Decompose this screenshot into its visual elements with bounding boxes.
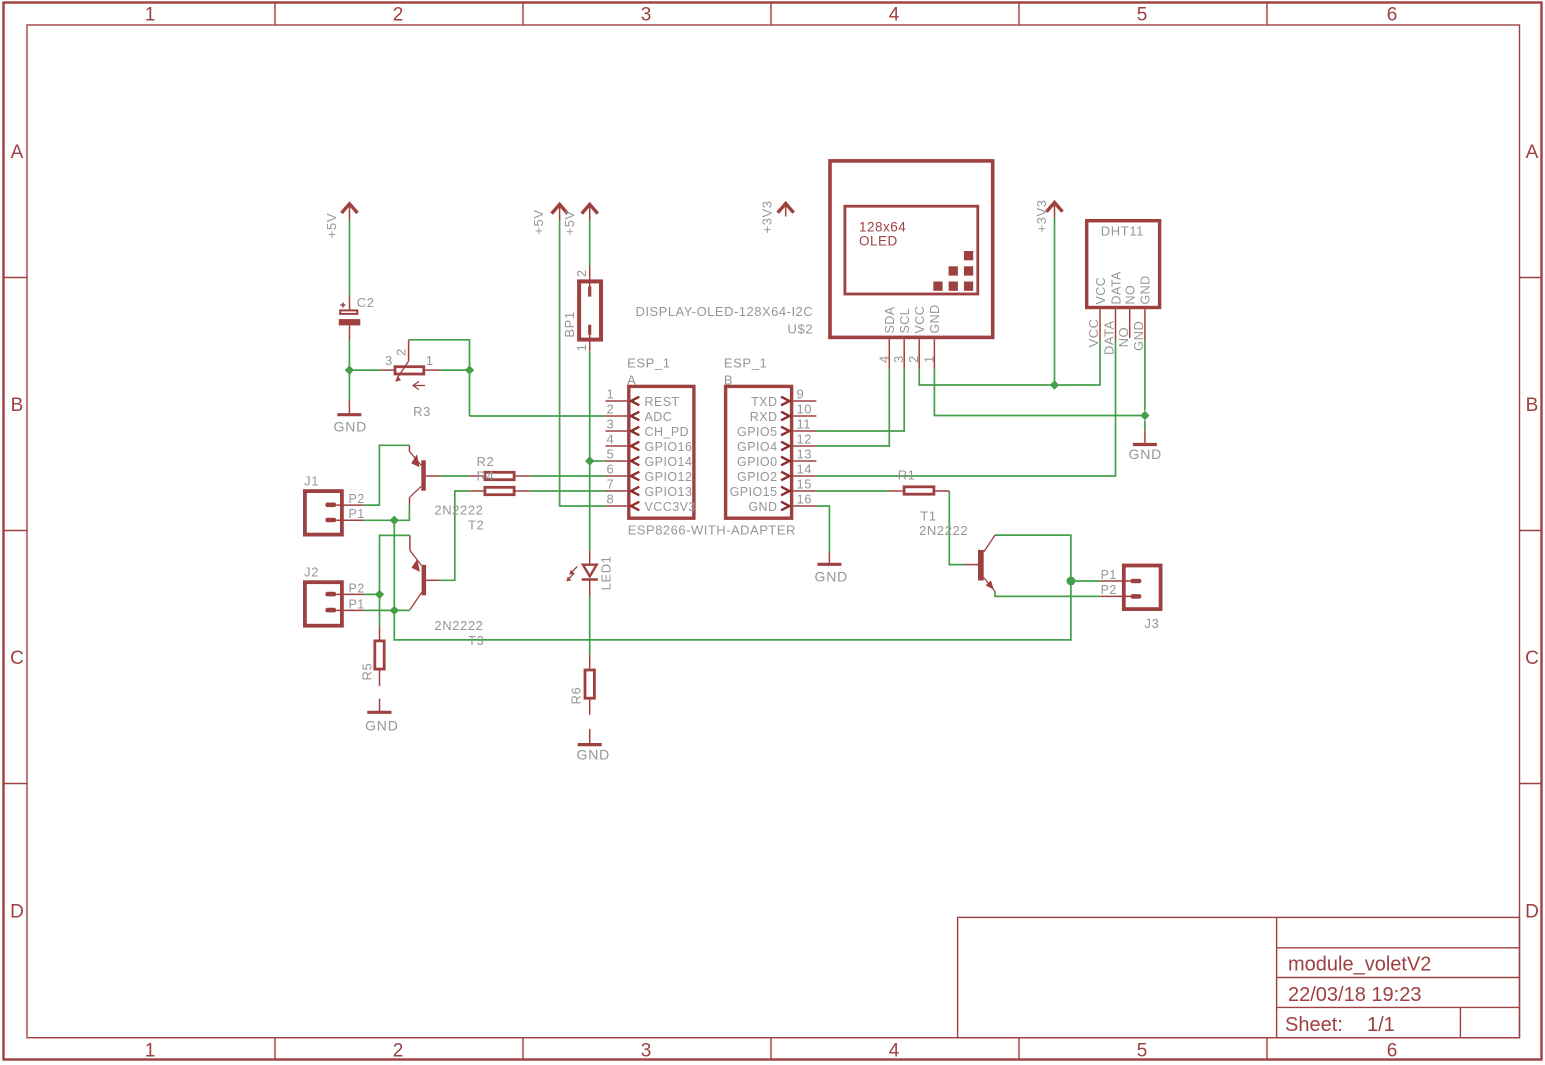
ESP A pin arrows: [631, 397, 639, 511]
svg-text:GPIO0: GPIO0: [737, 455, 777, 469]
ground symbol under R5: [367, 699, 391, 713]
frame column labels top: [145, 5, 1398, 26]
resistor R2: [469, 472, 530, 479]
svg-text:3: 3: [641, 1041, 652, 1062]
svg-text:VCC: VCC: [913, 306, 927, 334]
svg-text:4: 4: [889, 5, 900, 26]
svg-text:GND: GND: [1139, 275, 1153, 304]
svg-text:A: A: [1526, 142, 1539, 163]
svg-text:T1: T1: [920, 508, 936, 523]
svg-text:U$2: U$2: [788, 322, 814, 337]
svg-text:OLED: OLED: [859, 234, 898, 249]
wire C2 to GND node: [348, 340, 350, 400]
svg-text:DHT11: DHT11: [1101, 224, 1144, 239]
capacitor C2: [339, 296, 361, 340]
+5V supply symbol no.0 (above C2): [342, 204, 358, 220]
svg-text:P1: P1: [349, 597, 365, 611]
transistor T2: [409, 445, 439, 505]
wire node to R3 pin3: [349, 369, 380, 371]
svg-text:R5: R5: [360, 663, 375, 681]
potentiometer R3: [380, 340, 440, 390]
svg-text:D: D: [1525, 902, 1539, 923]
svg-text:1: 1: [426, 353, 434, 368]
svg-text:GPIO12: GPIO12: [645, 470, 693, 484]
wire R1 to T1 base: [949, 491, 964, 565]
svg-text:J3: J3: [1145, 616, 1160, 631]
ESP B pin numbers: [797, 387, 812, 507]
wire ADC net: [470, 415, 606, 417]
svg-text:1: 1: [575, 344, 589, 351]
junction node T1 collector / J3 P1: [1067, 577, 1076, 586]
svg-text:Sheet:: Sheet:: [1285, 1014, 1343, 1036]
svg-text:3: 3: [385, 353, 393, 368]
ground symbol near DHT11: [1133, 430, 1157, 444]
frame row labels right: [1525, 142, 1539, 923]
svg-text:DISPLAY-OLED-128X64-I2C: DISPLAY-OLED-128X64-I2C: [635, 304, 813, 319]
wire bottom bus J-P1 to T1 collector: [394, 520, 1071, 640]
svg-text:4: 4: [889, 1041, 900, 1062]
svg-text:2: 2: [393, 5, 404, 26]
svg-text:T3: T3: [468, 633, 484, 648]
svg-text:VCC: VCC: [1094, 277, 1108, 305]
svg-text:ESP_1: ESP_1: [724, 356, 767, 371]
svg-text:P1: P1: [1101, 568, 1117, 582]
wire J2 P2 node to R5: [379, 594, 381, 625]
wire GPIO2 to DHT11 DATA: [816, 340, 1115, 476]
wire +5V no.2 to BP1: [589, 220, 591, 265]
ground symbol for ESP pin16: [817, 552, 841, 564]
svg-text:10: 10: [797, 402, 812, 417]
ESP8266 adapter unit B box: [726, 386, 792, 518]
wire R3 pin1 to node: [440, 369, 469, 371]
ground symbol under C2/R3: [337, 400, 361, 415]
wire +5V to C2: [349, 220, 351, 296]
wire R2 to GPIO12: [530, 475, 606, 477]
svg-text:+5V: +5V: [562, 210, 577, 235]
wire BP1 to LED1: [589, 351, 591, 550]
svg-text:13: 13: [797, 447, 812, 462]
svg-text:5: 5: [1137, 1041, 1148, 1062]
svg-text:2: 2: [906, 355, 921, 363]
svg-text:GND: GND: [1131, 321, 1146, 351]
wire +3V3 arrow down: [1054, 218, 1056, 385]
svg-text:SDA: SDA: [883, 306, 897, 333]
svg-text:GND: GND: [334, 419, 368, 435]
svg-text:1: 1: [145, 1041, 156, 1062]
svg-text:CH_PD: CH_PD: [645, 425, 690, 439]
svg-text:16: 16: [797, 492, 812, 507]
svg-text:RXD: RXD: [750, 410, 778, 424]
svg-text:C: C: [1525, 648, 1539, 669]
DHT11 pin names inside: [1094, 271, 1153, 304]
svg-text:J2: J2: [304, 565, 319, 580]
push button BP1: [579, 265, 601, 351]
wire T1 collector junction to J3 P1: [1071, 580, 1100, 582]
junction node GPIO14/BP1 line: [585, 456, 594, 465]
wire DHT GND down: [1144, 340, 1146, 411]
svg-text:ESP_1: ESP_1: [627, 356, 670, 371]
OLED pin stubs: [889, 339, 934, 369]
junction node J2 P1: [390, 606, 399, 615]
svg-text:VCC: VCC: [1086, 318, 1101, 347]
svg-text:14: 14: [797, 462, 812, 477]
ESP A pin stubs: [606, 401, 628, 506]
wire +5V no.1 down to VCC3V3: [560, 220, 606, 506]
svg-text:D: D: [10, 902, 24, 923]
svg-text:R1: R1: [898, 468, 916, 483]
svg-text:GND: GND: [815, 569, 849, 585]
svg-text:2: 2: [575, 270, 589, 277]
resistor R5: [375, 626, 384, 686]
wire T2 base to R2: [439, 475, 469, 477]
resistor R4: [469, 487, 530, 494]
wire ESP GND pin16: [816, 506, 829, 552]
frame row ticks left: [4, 278, 28, 784]
svg-text:1: 1: [921, 355, 936, 363]
svg-text:6: 6: [1387, 5, 1398, 26]
svg-text:11: 11: [797, 417, 812, 432]
svg-text:15: 15: [797, 477, 812, 492]
junction node +3V3/VCC rail: [1050, 380, 1059, 389]
OLED checker pattern: [933, 251, 973, 291]
junction node R3 pin1/pin2/ADC: [465, 365, 474, 374]
svg-text:2: 2: [393, 1041, 404, 1062]
wire J2 P2 to T3 collector: [364, 535, 410, 594]
svg-text:SCL: SCL: [898, 308, 912, 334]
svg-text:P1: P1: [349, 507, 365, 521]
svg-text:J1: J1: [304, 474, 319, 489]
DHT11 pin stubs: [1100, 309, 1145, 340]
wire R3 pin2 top: [409, 340, 470, 416]
svg-text:+5V: +5V: [324, 213, 339, 238]
svg-text:LED1: LED1: [598, 555, 613, 590]
connector J1: [305, 491, 364, 534]
svg-text:4: 4: [607, 432, 615, 447]
svg-text:+3V3: +3V3: [760, 200, 775, 233]
frame column ticks bottom: [275, 1038, 1267, 1060]
transistor T1: [964, 535, 995, 591]
ground symbol under R6: [578, 729, 602, 745]
OLED display U$2 box: [830, 161, 993, 338]
wire DHT GND node to GND symbol: [1144, 420, 1146, 430]
svg-text:3: 3: [607, 417, 615, 432]
ESP B pin arrows: [781, 397, 789, 511]
svg-text:12: 12: [797, 432, 812, 447]
wires (green nets): [349, 218, 1145, 655]
svg-text:ADC: ADC: [645, 410, 673, 424]
ESP8266 adapter unit A box: [629, 386, 694, 518]
wire node to GPIO14: [590, 460, 606, 462]
svg-text:2N2222: 2N2222: [919, 523, 968, 538]
+5V supply symbol no.2 (above BP1): [582, 204, 598, 220]
svg-text:2: 2: [607, 402, 615, 417]
svg-text:BP1: BP1: [562, 311, 577, 337]
svg-text:GND: GND: [1129, 446, 1163, 462]
wire R4 to GPIO13: [530, 490, 606, 492]
svg-text:B: B: [11, 395, 24, 416]
svg-text:DATA: DATA: [1102, 320, 1117, 355]
resistor R6: [585, 655, 594, 715]
wire LED1 to R6: [589, 596, 591, 655]
svg-text:R6: R6: [569, 687, 584, 705]
title block outline: [958, 917, 1520, 1037]
svg-text:GPIO4: GPIO4: [737, 440, 777, 454]
junction node C2/R3: [345, 365, 1150, 615]
OLED screen inner box: [845, 206, 978, 294]
svg-text:VCC3V3: VCC3V3: [645, 500, 696, 514]
svg-text:R3: R3: [413, 404, 431, 419]
svg-text:1: 1: [607, 387, 615, 402]
DHT11 pad labels outside: [1086, 318, 1146, 355]
wire GPIO15 to R1: [816, 490, 889, 492]
svg-text:GPIO16: GPIO16: [645, 440, 693, 454]
ESP A pin names: [645, 395, 696, 514]
frame row labels left: [10, 142, 24, 923]
svg-text:5: 5: [607, 447, 615, 462]
junction node J1 P1: [390, 516, 399, 525]
svg-text:C: C: [10, 648, 24, 669]
svg-text:REST: REST: [645, 395, 680, 409]
svg-text:2N2222: 2N2222: [434, 502, 483, 517]
ESP B pin names: [730, 395, 778, 514]
svg-text:GPIO5: GPIO5: [737, 425, 777, 439]
wire J2 P1 to T3 emitter: [364, 609, 410, 611]
svg-text:C2: C2: [357, 295, 375, 310]
svg-text:P2: P2: [349, 492, 365, 506]
svg-text:+3V3: +3V3: [1034, 199, 1049, 232]
frame row ticks right: [1520, 278, 1542, 784]
+3V3 supply symbol no.1 (floating): [778, 204, 794, 217]
wire OLED GND to DHT GND: [934, 369, 1145, 416]
svg-text:GND: GND: [748, 500, 777, 514]
svg-text:1/1: 1/1: [1367, 1014, 1395, 1036]
svg-text:ESP8266-WITH-ADAPTER: ESP8266-WITH-ADAPTER: [628, 522, 796, 537]
OLED pin numbers: [876, 355, 936, 363]
wire J1 P1 to T2 emitter: [364, 505, 410, 521]
svg-text:B: B: [724, 373, 733, 388]
ESP A pin numbers: [607, 387, 615, 507]
frame column ticks top: [275, 3, 1267, 26]
LED1: [566, 551, 598, 596]
svg-text:T2: T2: [468, 517, 484, 532]
svg-text:5: 5: [1137, 5, 1148, 26]
wire T1 emitter to J3 P2: [995, 592, 1100, 597]
svg-text:R4: R4: [477, 469, 495, 484]
svg-text:A: A: [627, 373, 636, 388]
svg-text:GND: GND: [365, 718, 399, 734]
svg-text:128x64: 128x64: [859, 220, 906, 235]
connector J3: [1100, 566, 1160, 610]
svg-text:3: 3: [641, 5, 652, 26]
svg-text:+5V: +5V: [531, 209, 546, 234]
svg-text:6: 6: [607, 462, 615, 477]
ESP B pin stubs: [793, 401, 816, 506]
svg-text:9: 9: [797, 387, 805, 402]
frame column labels bottom: [145, 1041, 1398, 1062]
wire OLED VCC to +3V3 rail: [919, 340, 1100, 385]
svg-text:4: 4: [876, 355, 891, 363]
svg-text:B: B: [1526, 395, 1539, 416]
svg-text:TXD: TXD: [751, 395, 777, 409]
svg-text:GPIO15: GPIO15: [730, 485, 778, 499]
wire GPIO5 to OLED SCL: [816, 369, 904, 431]
wire GPIO4 to OLED SDA: [816, 369, 889, 446]
+5V supply symbol no.1: [552, 204, 568, 220]
DHT11 sensor box: [1087, 221, 1160, 308]
svg-text:NO: NO: [1116, 327, 1131, 348]
svg-text:DATA: DATA: [1109, 271, 1123, 304]
svg-text:7: 7: [607, 477, 615, 492]
resistor R1: [889, 487, 949, 494]
svg-text:GND: GND: [577, 746, 611, 762]
svg-text:GPIO2: GPIO2: [737, 470, 777, 484]
svg-text:P2: P2: [349, 581, 365, 595]
wire T3 base to R4: [439, 491, 469, 580]
transistor T3: [410, 535, 440, 609]
svg-text:A: A: [11, 142, 24, 163]
svg-text:GPIO14: GPIO14: [645, 455, 693, 469]
svg-text:22/03/18 19:23: 22/03/18 19:23: [1288, 984, 1421, 1006]
svg-text:GND: GND: [928, 304, 942, 333]
svg-text:2N2222: 2N2222: [434, 618, 483, 633]
svg-text:8: 8: [607, 492, 615, 507]
connector J2: [305, 582, 364, 626]
svg-text:GPIO13: GPIO13: [645, 485, 693, 499]
svg-text:1: 1: [145, 5, 156, 26]
OLED pin names: [883, 304, 942, 333]
svg-text:P2: P2: [1101, 583, 1117, 597]
wire J1 P2 to T2 collector: [364, 445, 410, 505]
svg-text:6: 6: [1387, 1041, 1398, 1062]
svg-text:R2: R2: [477, 454, 495, 469]
junction node GND rail: [1140, 411, 1149, 420]
svg-text:3: 3: [891, 355, 906, 363]
svg-text:module_voletV2: module_voletV2: [1288, 954, 1431, 976]
svg-text:2: 2: [394, 348, 409, 356]
svg-text:NO: NO: [1124, 285, 1138, 305]
+3V3 supply symbol no.2: [1047, 203, 1063, 219]
junction node J2 P2: [375, 590, 384, 599]
